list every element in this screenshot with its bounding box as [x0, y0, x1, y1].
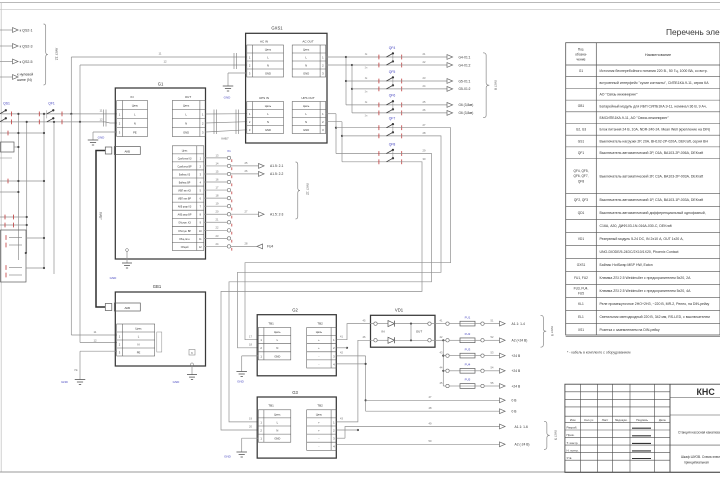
svg-text:Цепь: Цепь — [132, 104, 139, 108]
wire G3 plus to VD1 IN2 — [337, 335, 374, 431]
svg-text:1: 1 — [119, 113, 121, 117]
svg-text:А1.5: 2-1: А1.5: 2-1 — [270, 164, 284, 168]
GXS1 UPS IN table — [247, 96, 284, 134]
left tap stub 2 — [0, 157, 12, 159]
svg-text:к QS2-3: к QS2-3 — [20, 44, 33, 48]
parts row VD1 — [578, 237, 684, 241]
svg-text:Общ.сигн.: Общ.сигн. — [179, 239, 190, 241]
fuse FU2 — [440, 332, 528, 343]
svg-text:3н: 3н — [365, 91, 368, 94]
svg-text:шине (N): шине (N) — [17, 78, 32, 82]
svg-text:обозна-: обозна- — [575, 53, 587, 57]
svg-text:GND: GND — [224, 455, 232, 459]
svg-text:21: 21 — [423, 52, 426, 56]
relay KL1 box — [1, 230, 27, 282]
svg-text:48: 48 — [429, 406, 432, 410]
fuse FU5 — [440, 378, 521, 389]
svg-text:Обслуж. ВР: Обслуж. ВР — [178, 231, 191, 233]
svg-text:13: 13 — [216, 153, 219, 157]
svg-text:12: 12 — [93, 338, 97, 342]
parts row QD1 — [578, 211, 706, 215]
svg-text:1: 1 — [333, 338, 335, 342]
title block header row — [570, 418, 666, 422]
svg-text:43: 43 — [440, 350, 443, 354]
X1 pin 12 — [204, 242, 232, 251]
svg-text:1: 1 — [249, 55, 251, 59]
svg-text:46: 46 — [363, 335, 366, 339]
parts row С16А, А30, Д — [600, 224, 672, 228]
parts row БМСИПБ1КА.9- — [600, 116, 670, 120]
GXS1 AC OUT table — [292, 40, 326, 78]
svg-text:+24 В: +24 В — [512, 354, 522, 358]
G3 TB2 table — [307, 404, 337, 451]
svg-text:к нулевой: к нулевой — [17, 73, 33, 77]
svg-text:Изм: Изм — [570, 418, 576, 422]
wire UPS OUT L bus — [326, 114, 337, 154]
svg-text:17: 17 — [216, 185, 219, 189]
svg-text:* - кабель в комплекте с обору: * - кабель в комплекте с оборудованием — [567, 351, 631, 355]
svg-text:GND: GND — [224, 96, 232, 100]
svg-text:G2: G2 — [292, 308, 298, 313]
wire 0V row 1 — [365, 395, 518, 403]
svg-text:Наименование: Наименование — [645, 53, 671, 57]
left bus vertical 2 — [26, 121, 28, 253]
svg-text:G4-X1:2: G4-X1:2 — [459, 63, 471, 67]
svg-text:GND: GND — [265, 71, 271, 75]
svg-text:QS1: QS1 — [3, 102, 10, 106]
parts row АО "Связь ин — [600, 93, 639, 97]
circuit breaker QF7 — [336, 117, 426, 139]
svg-text:L: L — [277, 420, 279, 424]
signal wire to А1.5: 2-1 — [231, 161, 284, 168]
svg-text:GND: GND — [303, 128, 309, 132]
GB1 PE ground — [61, 351, 117, 384]
GXS1 AC IN GND ground — [223, 73, 247, 100]
wire AC OUT N bus — [326, 64, 353, 113]
group brace лист 12 (top left) — [44, 24, 59, 85]
svg-text:КНС: КНС — [697, 387, 716, 397]
svg-text:AC IN: AC IN — [260, 40, 268, 44]
wire riser L to AC IN — [70, 57, 247, 115]
parts row встроенный и — [600, 81, 710, 85]
parts row G2, G3 — [576, 128, 710, 132]
svg-text:ТВ1: ТВ1 — [268, 321, 274, 325]
svg-text:Цепь: Цепь — [316, 412, 323, 416]
fuse FU4 — [440, 363, 521, 374]
svg-text:24: 24 — [423, 84, 426, 88]
UPS G1 block — [115, 82, 205, 260]
svg-text:3в: 3в — [365, 77, 368, 80]
svg-text:GND: GND — [61, 380, 69, 384]
svg-text:FU5: FU5 — [578, 292, 584, 296]
svg-text:АКБ: АКБ — [124, 306, 130, 310]
svg-text:GB1: GB1 — [153, 284, 162, 289]
svg-text:L: L — [305, 55, 307, 59]
svg-text:N: N — [276, 346, 278, 350]
svg-text:+: + — [318, 339, 320, 342]
GB1 АКБ port — [105, 303, 140, 311]
svg-text:3в: 3в — [365, 53, 368, 56]
circuit breaker QF6 — [346, 94, 402, 116]
svg-text:2: 2 — [322, 63, 324, 67]
parts row QF1 — [578, 151, 703, 155]
svg-text:Цепь: Цепь — [183, 104, 190, 108]
G2 TB1 table — [258, 321, 291, 360]
svg-text:ИБП вкл ВР: ИБП вкл ВР — [178, 199, 191, 201]
left tap stub 3 — [0, 179, 45, 184]
svg-text:PE: PE — [133, 131, 137, 135]
wire N bus — [1, 122, 117, 123]
wires QF5 to outputs — [365, 76, 471, 93]
svg-text:Батарейный модуль для ИБП СИПБ: Батарейный модуль для ИБП СИПБ1КА.9-11, … — [600, 104, 707, 108]
X1 pin 10 — [204, 226, 232, 235]
svg-text:42: 42 — [340, 351, 343, 355]
G2 TB2 table — [307, 321, 337, 368]
svg-text:QD1: QD1 — [578, 211, 585, 215]
svg-text:L: L — [185, 113, 187, 117]
svg-text:1: 1 — [260, 437, 262, 441]
svg-text:1: 1 — [202, 113, 204, 117]
svg-text:3н: 3н — [365, 67, 368, 70]
svg-text:X1: X1 — [227, 149, 231, 153]
X1 pin 7 — [204, 202, 232, 211]
cable marker КАБ7 — [214, 110, 239, 141]
svg-text:XS1: XS1 — [578, 328, 584, 332]
circuit breaker QF1 — [39, 102, 62, 125]
svg-text:ТВ1: ТВ1 — [268, 404, 274, 408]
circuit breaker QF8 — [336, 142, 426, 164]
svg-text:G1: G1 — [579, 69, 583, 73]
GB1 bottom ground — [173, 363, 197, 384]
svg-text:Розетка с заземлением на DIN-р: Розетка с заземлением на DIN-рейку — [600, 328, 660, 332]
svg-text:-: - — [318, 438, 319, 441]
wire labels 11 12 before G1 — [99, 109, 103, 122]
signal wire to А1.5: 2-3 — [231, 209, 284, 216]
svg-text:17: 17 — [249, 334, 252, 338]
X1 pin 3 — [204, 169, 232, 178]
parts list table — [566, 43, 720, 337]
power supply G3 block — [257, 390, 336, 458]
svg-text:Цепь: Цепь — [135, 326, 142, 330]
svg-text:11: 11 — [94, 330, 97, 334]
svg-text:QF2, QF3: QF2, QF3 — [574, 198, 588, 202]
svg-text:20: 20 — [249, 425, 252, 429]
title block object name — [678, 431, 720, 435]
wire labels 11 12 at GB1 — [93, 330, 97, 342]
connector X1 label — [227, 149, 231, 153]
svg-text:UPS IN: UPS IN — [259, 96, 269, 100]
svg-text:3: 3 — [322, 71, 324, 75]
svg-text:GND: GND — [98, 136, 106, 140]
svg-text:FU4: FU4 — [465, 363, 471, 367]
parts row QF4, QF5, — [573, 169, 703, 183]
svg-text:+24 В: +24 В — [512, 369, 522, 373]
wire drop to GB1 L — [71, 114, 116, 335]
svg-text:3: 3 — [333, 437, 335, 441]
svg-text:Шкаф ШУОВ. Схема электрическ: Шкаф ШУОВ. Схема электрическ — [681, 455, 720, 459]
svg-text:22: 22 — [423, 60, 426, 64]
svg-text:42: 42 — [440, 335, 443, 339]
wire G3 minus to А2 — [337, 439, 530, 447]
parts list note — [567, 351, 631, 355]
wire G1 OUT GND to UPS IN — [206, 130, 247, 132]
svg-text:А2 (+24 В): А2 (+24 В) — [512, 339, 528, 343]
G1 IN table — [117, 95, 148, 137]
parts row FU1, FU2 — [574, 276, 691, 280]
X1 pin 11 — [204, 234, 232, 243]
svg-text:19: 19 — [216, 202, 219, 206]
svg-text:QF1: QF1 — [578, 151, 584, 155]
svg-text:Разраб.: Разраб. — [567, 426, 578, 430]
svg-text:12: 12 — [199, 247, 202, 249]
svg-text:0 В: 0 В — [512, 410, 518, 414]
X1 pin 1 — [204, 153, 232, 162]
svg-text:Байпас HotSwap МБР HW, Eaton: Байпас HotSwap МБР HW, Eaton — [600, 263, 653, 267]
svg-text:АКБ: АКБ — [124, 149, 130, 153]
svg-text:Цепь: Цепь — [274, 412, 281, 416]
svg-text:Источник бесперебойного питани: Источник бесперебойного питания 220 В., … — [600, 69, 708, 73]
svg-text:G6 (3,8кв): G6 (3,8кв) — [459, 103, 474, 107]
wire G2 plus to VD1 IN1 — [337, 319, 374, 349]
svg-text:Резервный модуль 5-24 DC, IN 2: Резервный модуль 5-24 DC, IN 2x10 А, OUT… — [600, 237, 684, 241]
parts row EL1 — [578, 315, 710, 319]
cable marker on input feed — [104, 110, 107, 127]
svg-text:52: 52 — [491, 335, 494, 339]
svg-text:Выключатель автоматический 2Р,: Выключатель автоматический 2Р, С3А, ВА10… — [600, 174, 704, 178]
svg-text:Н. контр.: Н. контр. — [567, 448, 580, 452]
svg-text:2: 2 — [260, 346, 262, 350]
svg-text:GS1: GS1 — [578, 139, 585, 143]
title block grid — [565, 384, 720, 472]
G3 GND ground — [224, 438, 258, 458]
svg-text:Выключатель автоматический 2Р,: Выключатель автоматический 2Р, С6А, ВА10… — [600, 151, 704, 155]
bypass switch GXS1 block — [246, 26, 327, 144]
svg-text:лист 9: лист 9 — [554, 430, 558, 440]
svg-text:15: 15 — [216, 169, 219, 173]
svg-text:GND: GND — [173, 380, 181, 384]
svg-text:N: N — [267, 120, 269, 124]
svg-text:24: 24 — [216, 242, 219, 246]
svg-text:N: N — [267, 63, 269, 67]
svg-text:3: 3 — [119, 131, 121, 135]
G1 АКБ port — [105, 147, 140, 155]
svg-text:0 В: 0 В — [512, 399, 518, 403]
parts row FU3, FU4, — [574, 286, 691, 295]
svg-text:QF8: QF8 — [578, 179, 584, 183]
wire UPS OUT N bus — [326, 122, 343, 162]
G3 TB1 table — [258, 404, 291, 443]
GB1 Б terminal — [189, 350, 195, 356]
svg-text:51: 51 — [491, 318, 494, 322]
svg-text:QF6, QF7,: QF6, QF7, — [573, 174, 588, 178]
svg-text:45: 45 — [440, 381, 443, 385]
svg-text:GND: GND — [183, 131, 189, 135]
wire G1 OUT L to UPS IN — [206, 113, 247, 115]
svg-text:Обслуж. КЗ: Обслуж. КЗ — [178, 223, 191, 225]
svg-text:Выключатель автоматический диф: Выключатель автоматический дифференциаль… — [600, 211, 706, 215]
svg-text:26: 26 — [423, 108, 426, 112]
svg-text:АО "Связь инжиниринг": АО "Связь инжиниринг" — [600, 93, 639, 97]
svg-text:11: 11 — [100, 109, 103, 113]
wire G1 OUT N to UPS IN — [206, 122, 247, 123]
wire L bus — [1, 113, 117, 115]
feeder stub к QS2-5 — [0, 59, 33, 64]
svg-text:3: 3 — [249, 128, 251, 132]
svg-text:2: 2 — [333, 429, 335, 433]
svg-text:G3: G3 — [292, 390, 298, 395]
svg-text:L: L — [267, 55, 269, 59]
switch QS1 — [0, 102, 12, 125]
svg-text:2: 2 — [260, 429, 262, 433]
diode module VD1 block — [371, 307, 436, 347]
parts row UNO-DIODE/5- — [600, 250, 679, 254]
svg-text:лист 12: лист 12 — [55, 48, 59, 61]
svg-text:AC OUT: AC OUT — [302, 40, 314, 44]
svg-text:GXS1: GXS1 — [577, 263, 586, 267]
svg-text:FU5: FU5 — [465, 378, 471, 382]
svg-text:9: 9 — [200, 223, 202, 225]
svg-text:С16А, А30, ДИФ103-1N-016А-030-: С16А, А30, ДИФ103-1N-016А-030-С, DEKraft — [600, 224, 672, 228]
svg-text:ТВ2: ТВ2 — [317, 404, 323, 408]
wire QF7 L to G2 — [245, 128, 451, 340]
parts row G1 — [579, 69, 708, 73]
svg-text:А2 (-24 В): А2 (-24 В) — [515, 443, 530, 447]
svg-text:+: + — [318, 430, 320, 433]
left tap stub 1 — [0, 131, 45, 136]
svg-text:Дата: Дата — [659, 418, 666, 422]
svg-text:41: 41 — [340, 335, 343, 339]
svg-text:GB1: GB1 — [578, 104, 585, 108]
svg-text:12: 12 — [99, 117, 103, 121]
svg-text:N: N — [305, 120, 307, 124]
svg-text:1: 1 — [333, 420, 335, 424]
svg-text:Перечень элементов: Перечень элементов — [666, 27, 720, 37]
X1 pin 6 — [204, 194, 232, 203]
parts row QF2, QF3 — [574, 198, 703, 202]
GXS1 UPS OUT table — [292, 96, 326, 134]
svg-text:3: 3 — [200, 174, 202, 176]
svg-text:G1: G1 — [158, 82, 164, 87]
svg-text:Цепь: Цепь — [316, 330, 323, 334]
wire AC OUT L bus — [326, 56, 347, 105]
wire QF8 L to G3 — [229, 154, 432, 422]
svg-text:+: + — [318, 421, 320, 424]
svg-text:БМСИПБ1КА.9-11, АО "Связь инжи: БМСИПБ1КА.9-11, АО "Связь инжиниринг" — [600, 116, 670, 120]
svg-text:8: 8 — [200, 215, 202, 217]
svg-text:-: - — [318, 355, 319, 358]
circuit breaker QF5 — [346, 70, 402, 92]
svg-text:49: 49 — [429, 421, 432, 425]
svg-text:Т. контр.: Т. контр. — [567, 441, 579, 445]
svg-text:28: 28 — [423, 131, 426, 135]
wire riser N to AC IN — [79, 65, 247, 123]
svg-text:QF7: QF7 — [389, 117, 396, 121]
brace лист 12 at X1 outputs — [296, 162, 310, 219]
svg-text:1: 1 — [119, 334, 121, 338]
svg-text:GND: GND — [265, 128, 271, 132]
svg-text:Кол.уч: Кол.уч — [584, 418, 593, 422]
svg-text:Цепь: Цепь — [265, 47, 272, 51]
svg-text:1: 1 — [260, 420, 262, 424]
svg-text:2: 2 — [249, 120, 251, 124]
svg-text:Поз.: Поз. — [578, 48, 585, 52]
svg-text:43: 43 — [340, 417, 343, 421]
VD1 diode row 2 — [374, 337, 431, 343]
svg-text:ИБП вкл КЗ: ИБП вкл КЗ — [178, 191, 191, 193]
svg-text:Выключатель автоматический 1Р,: Выключатель автоматический 1Р, С3А, ВА10… — [600, 198, 704, 202]
svg-text:3: 3 — [333, 354, 335, 358]
svg-text:1: 1 — [200, 158, 202, 160]
svg-text:-: - — [318, 446, 319, 449]
svg-text:Станция насосная канализацион: Станция насосная канализацион — [678, 431, 720, 435]
svg-text:14: 14 — [216, 161, 219, 165]
svg-text:1: 1 — [322, 112, 324, 116]
svg-text:VD1: VD1 — [395, 307, 404, 312]
svg-text:GND: GND — [274, 354, 280, 358]
svg-text:50: 50 — [429, 439, 432, 443]
svg-text:18: 18 — [249, 342, 252, 346]
svg-text:Блок питания 24 В, 10А, NDR-24: Блок питания 24 В, 10А, NDR-240-24, Mean… — [600, 128, 711, 132]
svg-text:Подпись: Подпись — [636, 418, 648, 422]
svg-text:принципиальная: принципиальная — [684, 461, 709, 465]
svg-text:N: N — [138, 342, 140, 346]
svg-text:FU1: FU1 — [465, 315, 471, 319]
svg-text:10: 10 — [199, 231, 202, 233]
svg-text:QF5: QF5 — [389, 70, 396, 74]
left bus vertical 3 — [43, 113, 45, 268]
svg-text:OUT: OUT — [185, 95, 192, 99]
X1 pin 5 — [204, 185, 232, 194]
svg-text:FU3: FU3 — [465, 347, 471, 351]
svg-text:GND: GND — [110, 276, 118, 280]
svg-text:АКБ разр ВР: АКБ разр ВР — [178, 214, 192, 217]
wires QF6 to outputs — [365, 100, 474, 117]
svg-text:L: L — [267, 112, 269, 116]
svg-text:Цепь: Цепь — [182, 150, 188, 152]
svg-text:N: N — [185, 122, 187, 126]
svg-text:лист 12: лист 12 — [306, 183, 310, 195]
svg-text:53: 53 — [491, 350, 494, 354]
svg-text:KL1: KL1 — [578, 302, 584, 306]
X1 pin 8 — [204, 210, 232, 219]
svg-text:16: 16 — [216, 177, 219, 181]
svg-text:GND: GND — [274, 437, 280, 441]
svg-text:А1.5: 2-2: А1.5: 2-2 — [270, 172, 284, 176]
svg-text:Цепь: Цепь — [303, 104, 310, 108]
svg-text:20: 20 — [216, 210, 219, 214]
svg-text:55: 55 — [491, 381, 494, 385]
svg-text:2: 2 — [333, 346, 335, 350]
svg-text:4: 4 — [333, 445, 335, 449]
svg-text:G6 (3,8кв): G6 (3,8кв) — [459, 111, 474, 115]
X1 pin 4 — [204, 177, 232, 186]
svg-text:Сработка КЗ: Сработка КЗ — [178, 158, 192, 160]
svg-text:23: 23 — [423, 76, 426, 80]
wire G3 minus to А1.1 — [337, 421, 528, 438]
svg-text:QF1: QF1 — [48, 102, 55, 106]
svg-text:30: 30 — [423, 157, 426, 161]
svg-text:QF4, QF5,: QF4, QF5, — [573, 169, 588, 173]
title block КНС — [697, 387, 716, 397]
svg-text:1: 1 — [260, 338, 262, 342]
cable marker on AC feed — [234, 53, 237, 69]
svg-text:27: 27 — [245, 209, 248, 213]
svg-text:3: 3 — [322, 128, 324, 132]
svg-text:27: 27 — [423, 123, 426, 127]
VD1 internal tie — [382, 324, 423, 341]
svg-text:IN: IN — [382, 330, 385, 334]
wire G2 minus bus — [337, 351, 367, 412]
